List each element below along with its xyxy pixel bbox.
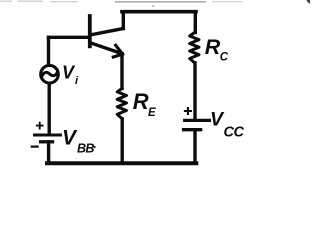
scan artifact top-right corner blob bbox=[307, 0, 311, 4]
wire Rc top vertical bbox=[194, 12, 197, 33]
source Vi circle bbox=[41, 65, 59, 83]
battery VCC plus sign bbox=[185, 108, 191, 114]
wire base horizontal bbox=[49, 36, 90, 39]
resistor RE zigzag bbox=[117, 89, 126, 119]
svg-text:BB: BB bbox=[77, 141, 94, 155]
scan artifact faint dot above top wire bbox=[152, 5, 155, 7]
svg-text:E: E bbox=[148, 107, 156, 119]
wire left vertical upper bbox=[47, 37, 50, 64]
wire Rc to VCC bbox=[193, 63, 196, 119]
battery VBB long plate bbox=[35, 133, 61, 136]
svg-text:i: i bbox=[75, 75, 79, 87]
svg-text:V: V bbox=[62, 62, 76, 82]
svg-text:CC: CC bbox=[224, 125, 245, 141]
wire RE bottom vertical bbox=[120, 119, 123, 163]
svg-text:R: R bbox=[133, 89, 149, 114]
resistor RC zigzag bbox=[190, 33, 199, 63]
svg-text:R: R bbox=[205, 35, 221, 59]
wire VBB to bottom bbox=[47, 142, 50, 163]
transistor Q1 collector diagonal bbox=[91, 29, 123, 35]
battery VBB short plate bbox=[41, 140, 53, 143]
battery VCC long plate bbox=[185, 119, 210, 122]
transistor Q1 base bar bbox=[88, 16, 92, 46]
wire VCC to bottom bbox=[193, 130, 196, 164]
wire bottom horizontal bbox=[47, 161, 196, 165]
wire top horizontal (collector to Rc) bbox=[122, 10, 196, 14]
transistor Q1 emitter arrowhead bbox=[113, 45, 122, 57]
battery VBB minus sign bbox=[32, 146, 38, 148]
wire collector vertical bbox=[122, 12, 125, 29]
wire left vertical lower bbox=[48, 84, 51, 133]
source Vi sine tilde bbox=[42, 72, 57, 75]
label VBB trailing dot bbox=[93, 146, 96, 149]
svg-text:V: V bbox=[62, 127, 78, 150]
battery VCC short plate bbox=[184, 128, 201, 131]
wire emitter vertical bbox=[120, 54, 123, 89]
scan artifact top dashes bbox=[0, 1, 12, 3]
svg-text:C: C bbox=[220, 51, 229, 63]
transistor Q1 emitter diagonal bbox=[91, 43, 122, 54]
battery VBB plus sign bbox=[37, 123, 43, 129]
